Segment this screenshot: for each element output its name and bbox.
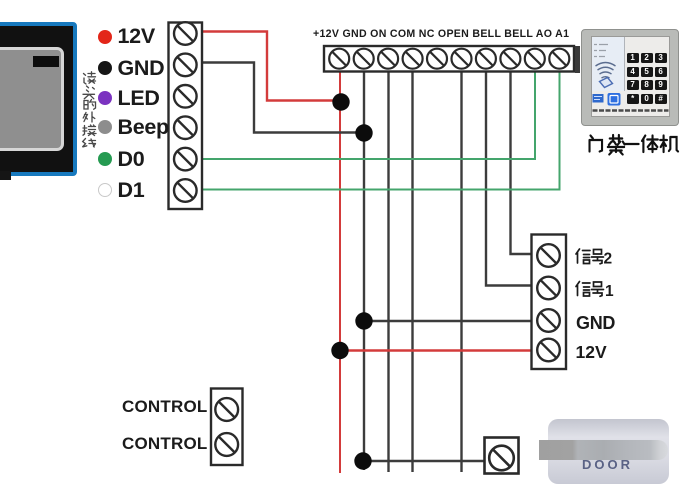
pin: strip +12V xyxy=(329,49,349,69)
label: 信号2 (hand-drawn glyphs + digit) xyxy=(576,249,604,264)
pin: strip ON xyxy=(378,49,398,69)
glyph 读 xyxy=(84,72,96,84)
pin: reader LED screw xyxy=(174,85,197,108)
LED dot: LED (purple) xyxy=(98,91,112,105)
label: 读头的外接线 (vertical, hand-drawn glyphs) xyxy=(83,72,96,147)
pin: strip AO xyxy=(525,49,545,69)
keypad side tab xyxy=(575,46,580,73)
label: GND (right block) xyxy=(576,313,615,334)
junction: GND net with reader GND xyxy=(355,124,372,141)
reader device inner gray panel xyxy=(0,47,64,151)
label: GND xyxy=(118,56,165,81)
label: CONTROL (pin 1) xyxy=(122,397,207,417)
junction: GND net to bottom block xyxy=(354,452,371,469)
keypad left sub-panel xyxy=(592,37,625,91)
pin: lock 信号2 screw xyxy=(537,244,560,267)
glyph 信 (for 信号1) xyxy=(576,282,590,297)
label: 12V xyxy=(118,24,155,49)
glyph 机 xyxy=(660,136,678,153)
pin: lock GND screw xyxy=(537,309,560,332)
glyph 门 xyxy=(590,136,603,152)
wire: green AO to reader D0 xyxy=(202,72,535,160)
glyph 外 xyxy=(83,112,95,122)
pin: CONTROL screw 1 xyxy=(215,398,238,421)
pin: lock 信号1 screw xyxy=(537,277,560,300)
wire: black GND net to bottom block pin xyxy=(364,460,485,462)
wire: black from reader GND to GND net xyxy=(202,63,364,133)
label: CONTROL (pin 2) xyxy=(122,434,207,454)
label: 12V (right block) xyxy=(576,342,607,363)
LED dot: Beep (gray) xyxy=(98,120,112,134)
keypad device (门禁一体机) body xyxy=(581,29,679,126)
wire: black OPEN vertical xyxy=(460,72,462,473)
wire: red +12V vertical from strip terminal 1 down xyxy=(339,72,341,474)
pin: reader Beep screw xyxy=(174,116,197,139)
wire: black BELL to right block 信号2 pin xyxy=(511,72,532,255)
keypad blue button xyxy=(608,93,621,106)
watermark gray band xyxy=(539,440,668,461)
keypad inner panel xyxy=(591,36,671,117)
wire: green A1 to reader D1 xyxy=(202,72,560,190)
label: strip pin names "+12V GND ON COM NC OPEN BELL BELL AO A1" xyxy=(313,28,569,40)
keypad blue tag xyxy=(593,94,604,103)
glyph 的 xyxy=(84,100,96,110)
reader device (top-left card reader photo) xyxy=(0,22,77,176)
pin: reader D0 screw xyxy=(174,148,197,171)
pin: reader GND screw xyxy=(174,54,197,77)
reader terminal block (6 pins) xyxy=(169,23,203,210)
label: DOOR xyxy=(582,457,633,472)
label: D1 xyxy=(118,178,145,203)
pin: strip BELL1 xyxy=(476,49,496,69)
CONTROL terminal block (2 pins) xyxy=(211,389,243,466)
glyph 头 xyxy=(83,86,95,99)
glyph 号 (for 信号1) xyxy=(592,282,604,296)
glyph 禁 xyxy=(608,135,625,155)
door exit button device xyxy=(548,419,669,484)
label: D0 xyxy=(118,147,145,172)
glyph 号 (for 信号2) xyxy=(592,250,604,264)
glyph 接 xyxy=(83,125,96,136)
label: LED xyxy=(118,86,160,111)
pin: reader 12V screw xyxy=(174,22,197,45)
keypad card icon xyxy=(600,78,613,88)
label: 门禁一体机 (hand-drawn glyphs) xyxy=(590,135,679,155)
LED dot: 12V (red) xyxy=(98,30,112,44)
wire: black BELL to right block 信号1 pin xyxy=(486,72,532,286)
LED dot: GND (black) xyxy=(98,61,112,75)
glyph 一 xyxy=(625,143,638,145)
junction: +12V net to right block xyxy=(331,342,348,359)
pin: strip GND xyxy=(354,49,374,69)
pin: strip A1 xyxy=(549,49,569,69)
pin: bottom screw xyxy=(489,446,514,471)
pin: strip BELL2 xyxy=(500,49,520,69)
wire: black COM vertical xyxy=(411,72,413,473)
wire: black GND vertical from strip terminal 2 down xyxy=(363,72,365,471)
door lock terminal block (4 pins) xyxy=(532,235,567,370)
pin: reader D1 screw xyxy=(174,179,197,202)
wire: black GND net to right block GND pin xyxy=(364,320,532,322)
label: Beep xyxy=(118,115,169,140)
bottom terminal block (1 pin) xyxy=(485,438,519,474)
glyph 体 xyxy=(642,136,658,153)
reader device bottom tab xyxy=(0,171,11,180)
glyph 信 (for 信号2) xyxy=(576,249,590,264)
LED dot: D0 (green) xyxy=(98,152,112,166)
junction: GND net to right block xyxy=(355,312,372,329)
pin: lock 12V screw xyxy=(537,339,560,362)
reader device slot xyxy=(33,56,59,67)
keypad RFID wave arcs xyxy=(596,63,616,79)
pin: strip OPEN xyxy=(452,49,472,69)
LED dot: D1 (white) xyxy=(98,183,112,197)
pin: strip COM xyxy=(403,49,423,69)
glyph 线 xyxy=(83,139,96,148)
junction: +12V net with reader 12V xyxy=(332,93,349,110)
wire: red from +12V net to right block 12V pin xyxy=(340,349,532,351)
pin: strip NC xyxy=(427,49,447,69)
pin: CONTROL screw 2 xyxy=(215,433,238,456)
controller terminal strip (10 pins) xyxy=(324,46,574,72)
keypad keys xyxy=(627,53,669,103)
keypad bottom fine print xyxy=(593,109,669,112)
wire: black ON vertical xyxy=(387,72,389,473)
wire: red from reader 12V to +12V net xyxy=(202,32,340,101)
